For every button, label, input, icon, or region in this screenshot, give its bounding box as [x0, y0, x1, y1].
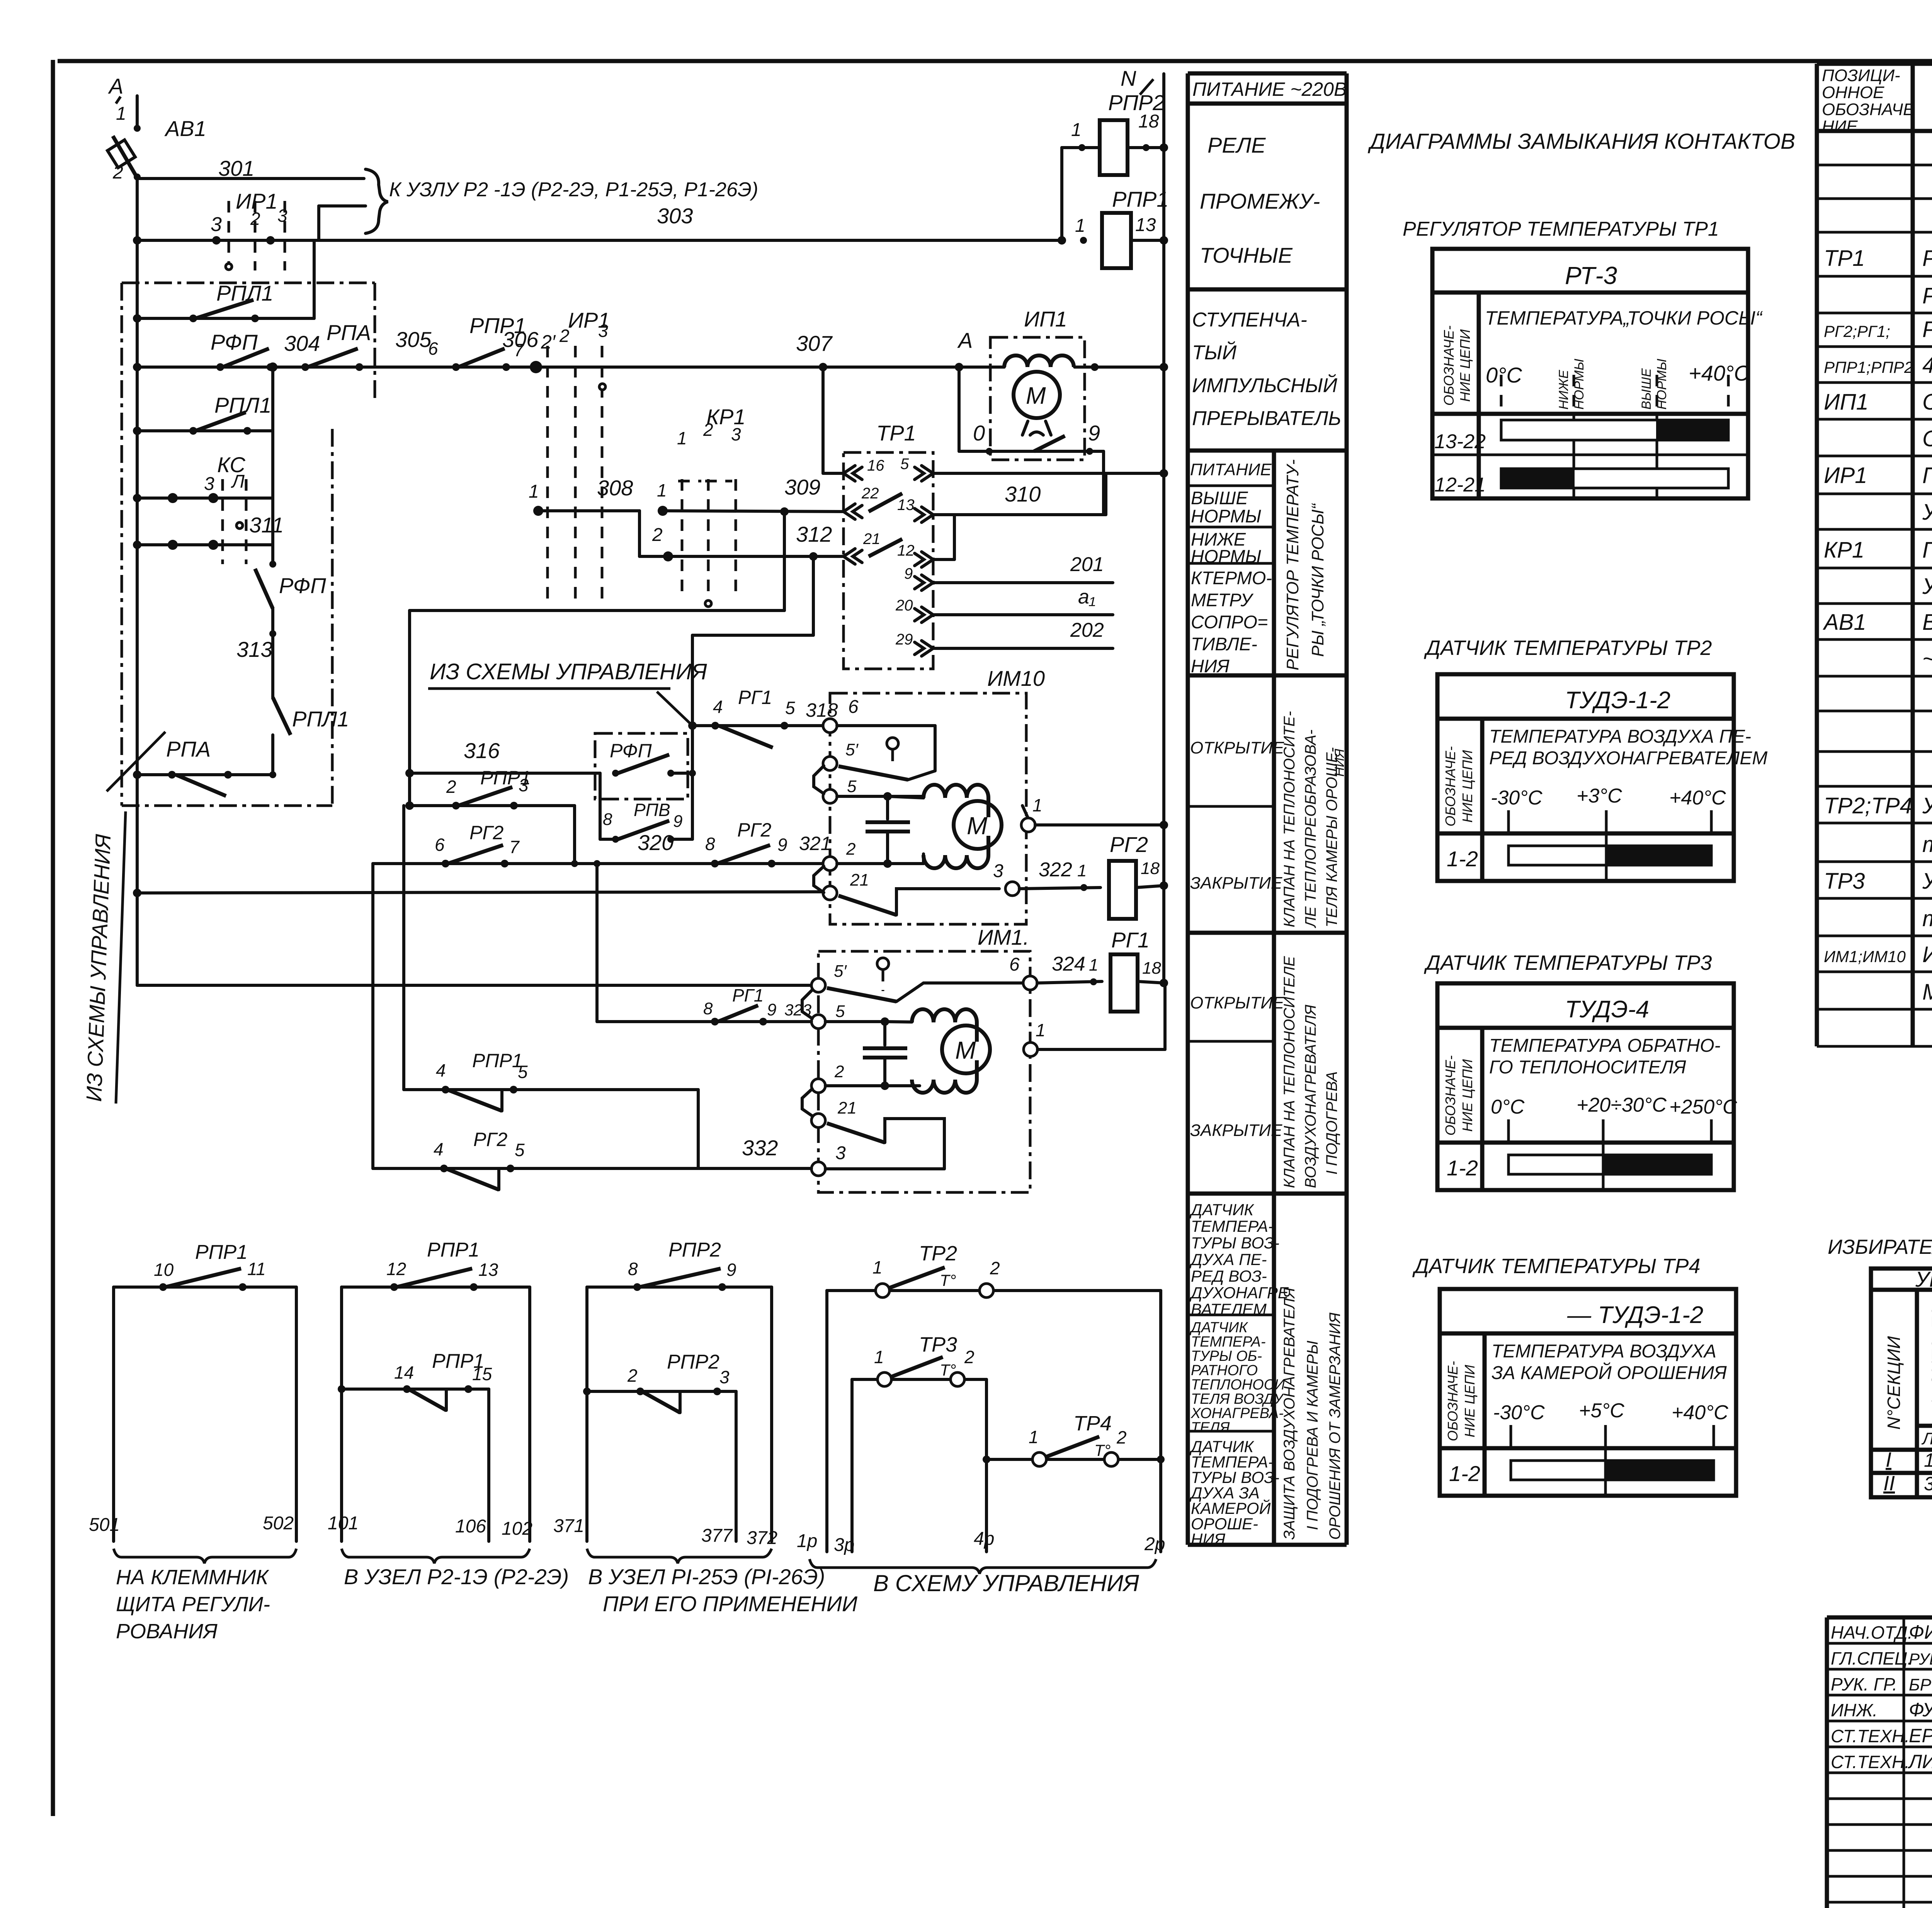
svg-text:ЛИСИКИНА: ЛИСИКИНА: [1908, 1751, 1932, 1772]
svg-text:ОБОЗНАЧЕ-: ОБОЗНАЧЕ-: [1441, 325, 1457, 406]
svg-text:5: 5: [900, 456, 909, 473]
svg-text:ОРОШЕНИЯ ОТ ЗАМЕРЗАНИЯ: ОРОШЕНИЯ ОТ ЗАМЕРЗАНИЯ: [1327, 1312, 1344, 1540]
svg-text:311: 311: [249, 513, 284, 537]
svg-text:РЕД ВОЗДУХОНАГРЕВАТЕЛЕМ: РЕД ВОЗДУХОНАГРЕВАТЕЛЕМ: [1489, 748, 1767, 769]
svg-text:6: 6: [435, 835, 445, 855]
svg-text:а₁: а₁: [1078, 586, 1095, 608]
svg-text:Л: Л: [231, 471, 245, 492]
contact КС: [137, 497, 273, 500]
wire to ИМ10 pin 21: [137, 892, 830, 893]
wire 316: [410, 772, 600, 775]
svg-text:13: 13: [897, 497, 915, 514]
motor М (ИП1): [1014, 372, 1060, 418]
stepper interrupter ИП1: [990, 337, 1085, 460]
svg-text:ФУКС: ФУКС: [1909, 1699, 1932, 1721]
svg-text:ТУДЭ-4: ТУДЭ-4: [1565, 996, 1649, 1023]
contact РПР1 4-5: [404, 1088, 698, 1091]
svg-text:1: 1: [1071, 120, 1082, 140]
svg-text:2: 2: [652, 525, 663, 545]
svg-text:2: 2: [446, 777, 456, 797]
svg-text:РПР1: РПР1: [427, 1239, 480, 1261]
title block: [1827, 1617, 1932, 1908]
svg-text:7: 7: [509, 837, 520, 857]
svg-text:1: 1: [1032, 795, 1043, 815]
svg-text:РПР1;РПР2: РПР1;РПР2: [1824, 358, 1913, 376]
svg-text:5: 5: [785, 698, 795, 718]
svg-text:РПА: РПА: [166, 737, 211, 761]
svg-text:ДАТЧИК: ДАТЧИК: [1189, 1320, 1248, 1336]
svg-text:12: 12: [897, 542, 915, 559]
svg-text:3р: 3р: [834, 1535, 854, 1555]
contact РГ1 4-5 wire 318: [692, 724, 830, 727]
svg-text:УП5311-С225 ТУ16-524.074-7: УП5311-С225 ТУ16-524.074-75: [1922, 500, 1932, 525]
svg-text:РПЛ1: РПЛ1: [214, 393, 271, 417]
svg-text:3: 3: [1924, 1473, 1932, 1495]
svg-text:8: 8: [603, 810, 612, 829]
svg-text:Устройство терморегулирующее: Устройство терморегулирующее элек-: [1922, 869, 1932, 894]
svg-text:8: 8: [628, 1259, 638, 1279]
diagram table ТУДЭ-1-2 (датчик ТР2): [1437, 674, 1767, 881]
svg-text:+40°С: +40°С: [1672, 1401, 1728, 1424]
svg-text:А: А: [957, 328, 973, 352]
svg-text:4з+4р ТУ16-523.457-74: 4з+4р ТУ16-523.457-74: [1922, 353, 1932, 378]
svg-text:НАЧ.ОТД.: НАЧ.ОТД.: [1831, 1622, 1913, 1643]
svg-text:3: 3: [993, 861, 1003, 881]
svg-text:12-21: 12-21: [1434, 474, 1486, 496]
svg-text:20: 20: [895, 597, 913, 614]
actuator ИМ10 box: [830, 693, 1026, 924]
svg-text:НИЕ: НИЕ: [1822, 117, 1858, 136]
svg-text:313: 313: [236, 637, 272, 662]
svg-text:ТУРЫ ВОЗ-: ТУРЫ ВОЗ-: [1191, 1234, 1279, 1252]
svg-text:6: 6: [428, 338, 438, 359]
svg-text:ОТКРЫТИЕ: ОТКРЫТИЕ: [1190, 738, 1284, 757]
svg-text:+5°С: +5°С: [1579, 1400, 1624, 1422]
svg-text:8: 8: [705, 834, 715, 854]
svg-text:ВАТЕЛЕМ: ВАТЕЛЕМ: [1191, 1300, 1267, 1318]
svg-text:ВОЗДУХОНАГРЕВАТЕЛЯ: ВОЗДУХОНАГРЕВАТЕЛЯ: [1302, 1004, 1319, 1188]
svg-text:СТУПЕНЧА-: СТУПЕНЧА-: [1192, 309, 1307, 331]
svg-text:9: 9: [767, 1000, 776, 1019]
ИМ10 pin 21 contact: [823, 886, 837, 900]
parts list table (Щит регулирования): [1817, 64, 1932, 1046]
svg-text:Исполнительный механизм: Исполнительный механизм: [1922, 942, 1932, 967]
svg-text:ТОЧНЫЕ: ТОЧНЫЕ: [1200, 243, 1293, 267]
svg-text:ДАТЧИК ТЕМПЕРАТУРЫ ТР4: ДАТЧИК ТЕМПЕРАТУРЫ ТР4: [1412, 1255, 1700, 1278]
svg-text:ТР2;ТР4: ТР2;ТР4: [1824, 793, 1912, 818]
ИМ10 pin 5' limit contact: [823, 757, 837, 770]
svg-text:ТЕМПЕРАТУРА„ТОЧКИ РОСЫ“: ТЕМПЕРАТУРА„ТОЧКИ РОСЫ“: [1485, 307, 1763, 329]
svg-text:СОПРО=: СОПРО=: [1191, 612, 1268, 632]
branch ТР4: [986, 1458, 1161, 1461]
relay coil РПР2: [1060, 148, 1063, 240]
svg-text:1: 1: [874, 1347, 884, 1367]
svg-text:~220В.Jн=1,6А;Jотс=1,3Jн ТУ16-: ~220В.Jн=1,6А;Jотс=1,3Jн ТУ16-522.110-74: [1922, 646, 1932, 672]
svg-text:4: 4: [713, 697, 723, 717]
pin 12 bracket: [953, 515, 956, 559]
svg-text:ТЫЙ: ТЫЙ: [1192, 341, 1237, 364]
svg-text:УП5311- С225: УП5311- С225: [1915, 1267, 1932, 1291]
svg-text:312: 312: [796, 522, 832, 546]
svg-text:I: I: [1886, 1448, 1891, 1471]
svg-text:БРОНШТЕЙН: БРОНШТЕЙН: [1909, 1675, 1932, 1694]
ИМ1 pin 5: [811, 1015, 825, 1029]
svg-text:Устройство терморегули: Устройство терморегули: [1922, 793, 1932, 818]
svg-text:РГ1: РГ1: [1111, 928, 1150, 952]
ИМ10 pin 1: [1021, 818, 1035, 832]
svg-text:13-22: 13-22: [1434, 430, 1486, 453]
svg-text:РПР1: РПР1: [1112, 187, 1168, 211]
svg-text:ТУДЭ-1-2: ТУДЭ-1-2: [1565, 687, 1670, 714]
svg-text:СТ.ТЕХН.: СТ.ТЕХН.: [1831, 1752, 1910, 1772]
svg-text:ТР1: ТР1: [876, 421, 916, 445]
svg-text:13: 13: [1135, 215, 1156, 235]
svg-text:УП5311-А225 ТУ16-524.07: УП5311-А225 ТУ16-524.074-75: [1922, 574, 1932, 599]
svg-text:НИЯ: НИЯ: [1191, 1530, 1225, 1548]
svg-text:+40°С: +40°С: [1669, 787, 1726, 809]
svg-text:18: 18: [1142, 959, 1161, 978]
circuit breaker АВ1: [136, 96, 139, 129]
svg-text:РГ2: РГ2: [1110, 832, 1148, 857]
svg-text:3: 3: [598, 321, 608, 341]
svg-text:РУК. ГР.: РУК. ГР.: [1831, 1674, 1897, 1694]
svg-text:Ступенчатый импульсный преры: Ступенчатый импульсный прерыватель: [1922, 389, 1932, 415]
svg-text:ТИВЛЕ-: ТИВЛЕ-: [1191, 634, 1257, 654]
svg-text:11: 11: [247, 1259, 266, 1279]
svg-text:301: 301: [218, 156, 254, 180]
svg-text:I ПОДОГРЕВА: I ПОДОГРЕВА: [1323, 1071, 1340, 1175]
ИМ1 pin 3: [811, 1162, 825, 1176]
svg-text:308: 308: [597, 476, 633, 500]
temperature regulator ТР1 box: [844, 452, 933, 669]
contact РПЛ1 (upper): [137, 317, 314, 320]
svg-text:РПР1: РПР1: [195, 1241, 248, 1263]
svg-text:ПИТАНИЕ: ПИТАНИЕ: [1190, 460, 1272, 479]
svg-text:5: 5: [835, 1002, 845, 1021]
svg-text:ИМПУЛЬСНЫЙ: ИМПУЛЬСНЫЙ: [1192, 374, 1338, 397]
svg-text:8: 8: [703, 999, 713, 1018]
svg-text:НОРМЫ: НОРМЫ: [1191, 506, 1261, 526]
svg-text:ДАТЧИК: ДАТЧИК: [1189, 1201, 1254, 1219]
svg-text:РГ2;РГ1;: РГ2;РГ1;: [1824, 322, 1890, 340]
diagram table РТ-3 (регулятор температуры ТР1): [1432, 249, 1763, 498]
svg-text:+3°С: +3°С: [1577, 785, 1622, 807]
svg-text:ВЫШЕ: ВЫШЕ: [1191, 488, 1248, 508]
svg-text:ОБОЗНАЧЕ-: ОБОЗНАЧЕ-: [1442, 1055, 1458, 1136]
svg-text:310: 310: [1005, 482, 1041, 506]
svg-text:1: 1: [1077, 861, 1087, 880]
svg-text:13: 13: [478, 1260, 498, 1280]
svg-text:РПР2: РПР2: [667, 1351, 719, 1373]
svg-text:ТЕЛЯ: ТЕЛЯ: [1191, 1420, 1230, 1436]
contact РПА row: [137, 773, 273, 776]
svg-text:+40°С: +40°С: [1689, 361, 1750, 385]
svg-text:ГЛ.СПЕЦ.: ГЛ.СПЕЦ.: [1831, 1648, 1912, 1668]
svg-text:4: 4: [436, 1060, 446, 1080]
svg-text:3: 3: [519, 775, 529, 795]
svg-text:ИП1: ИП1: [1024, 307, 1067, 331]
svg-text:320: 320: [638, 830, 673, 855]
contact РГ2 4-5 / wire 332: [373, 1167, 811, 1170]
svg-text:НИЯ: НИЯ: [1191, 656, 1230, 676]
svg-text:0°С: 0°С: [1491, 1096, 1525, 1118]
svg-text:ОННОЕ: ОННОЕ: [1822, 83, 1884, 102]
pin 21 contact: [844, 549, 855, 564]
svg-text:304: 304: [284, 331, 320, 355]
right bus N: [1162, 74, 1165, 985]
svg-text:ТЕМПЕРАТУРА ОБРАТНО-: ТЕМПЕРАТУРА ОБРАТНО-: [1489, 1036, 1721, 1056]
svg-text:+20÷30°С: +20÷30°С: [1577, 1094, 1667, 1116]
svg-text:6: 6: [848, 697, 859, 717]
svg-text:М: М: [967, 812, 988, 840]
svg-text:N°КОНТАКТА: N°КОНТАКТА: [1928, 1306, 1932, 1418]
svg-text:3: 3: [731, 424, 741, 444]
svg-text:НИЕ ЦЕПИ: НИЕ ЦЕПИ: [1457, 329, 1473, 402]
svg-text:106: 106: [455, 1516, 486, 1537]
svg-text:1: 1: [116, 104, 126, 124]
contact РПЛ1 (lower): [137, 429, 273, 432]
svg-text:324: 324: [1052, 953, 1085, 975]
svg-text:1: 1: [1089, 956, 1098, 974]
svg-text:РОВАНИЯ: РОВАНИЯ: [116, 1620, 218, 1643]
svg-text:9: 9: [726, 1260, 736, 1280]
svg-text:3: 3: [204, 474, 214, 494]
contact РПР1 2-3: [410, 804, 575, 807]
svg-text:9: 9: [1088, 421, 1100, 445]
svg-text:29: 29: [895, 631, 913, 648]
svg-text:ФИНГЕР: ФИНГЕР: [1909, 1621, 1932, 1643]
wire to ИМ1 pin 5": [137, 984, 818, 987]
svg-text:АВ1: АВ1: [1823, 610, 1866, 635]
svg-text:102: 102: [502, 1519, 532, 1539]
svg-text:201: 201: [1070, 553, 1104, 576]
svg-text:РПЛ1: РПЛ1: [216, 281, 273, 305]
svg-text:202: 202: [1070, 619, 1104, 641]
wire 311 row: [137, 543, 273, 546]
svg-text:ЕРИНА: ЕРИНА: [1909, 1725, 1932, 1746]
panel boundary dash-dot: [122, 282, 375, 284]
svg-text:трическое ТУДЭ-1-2 ТУ25-: трическое ТУДЭ-1-2 ТУ25-02.1074-75: [1922, 832, 1932, 857]
svg-text:2: 2: [627, 1366, 638, 1386]
svg-text:1: 1: [1029, 1427, 1039, 1447]
svg-text:14: 14: [394, 1362, 414, 1383]
svg-text:1: 1: [677, 428, 687, 448]
capacitor (ИМ1): [883, 1022, 886, 1045]
svg-text:N: N: [1121, 66, 1136, 90]
svg-text:0°С: 0°С: [1486, 363, 1522, 387]
svg-text:Реле промежуточное ПЭ-21-5У: Реле промежуточное ПЭ-21-5УЗ,~220В: [1922, 317, 1932, 342]
svg-text:4р: 4р: [974, 1529, 994, 1549]
svg-text:ТР2: ТР2: [919, 1242, 957, 1265]
svg-text:1-2: 1-2: [1447, 847, 1478, 871]
left supply bus: [136, 178, 139, 985]
svg-text:РПЛ1: РПЛ1: [292, 707, 349, 731]
svg-text:РЕЛЕ: РЕЛЕ: [1207, 133, 1266, 157]
svg-text:101: 101: [328, 1513, 359, 1534]
svg-text:ДАТЧИК ТЕМПЕРАТУРЫ ТР3: ДАТЧИК ТЕМПЕРАТУРЫ ТР3: [1424, 951, 1712, 974]
svg-text:В УЗЕЛ РI-25Э (РI-26Э): В УЗЕЛ РI-25Э (РI-26Э): [588, 1564, 825, 1589]
table rows text: [1823, 177, 1932, 1005]
svg-text:5′: 5′: [834, 962, 847, 981]
svg-text:М: М: [955, 1036, 976, 1064]
svg-text:2: 2: [834, 1062, 844, 1081]
svg-text:1-2: 1-2: [1449, 1461, 1480, 1486]
group 4: to control circuit: [825, 1291, 828, 1552]
svg-text:1: 1: [657, 480, 667, 500]
svg-text:323: 323: [784, 1001, 811, 1019]
svg-text:РЕГУЛЯТОР ТЕМПЕРАТУ-: РЕГУЛЯТОР ТЕМПЕРАТУ-: [1283, 459, 1302, 670]
svg-text:РАТНОГО: РАТНОГО: [1191, 1362, 1258, 1379]
svg-text:КР1: КР1: [1824, 537, 1864, 563]
svg-text:316: 316: [464, 738, 500, 763]
svg-text:2: 2: [990, 1258, 1000, 1278]
ИМ10 pin 5: [823, 789, 837, 803]
actuator ИМ1 box: [818, 951, 1030, 1192]
svg-text:ТЕЛЯ ВОЗДУ: ТЕЛЯ ВОЗДУ: [1191, 1391, 1284, 1407]
svg-text:РПР1: РПР1: [472, 1050, 523, 1071]
svg-text:1: 1: [1036, 1020, 1046, 1040]
svg-text:502: 502: [263, 1513, 294, 1534]
svg-text:1: 1: [1075, 216, 1085, 236]
wire 320/321 row: [373, 862, 830, 865]
svg-text:3: 3: [719, 1367, 730, 1387]
РФП bypass box: [595, 733, 688, 799]
svg-text:21: 21: [837, 1099, 857, 1117]
svg-text:12: 12: [386, 1259, 406, 1279]
svg-text:трическое ТУДЭ-4 ТУ25-02.10: трическое ТУДЭ-4 ТУ25-02.1074-75: [1922, 906, 1932, 931]
svg-text:ПРИ ЕГО ПРИМЕНЕНИИ: ПРИ ЕГО ПРИМЕНЕНИИ: [603, 1592, 858, 1616]
pin 20 / wire a1: [922, 607, 933, 622]
svg-text:ОБОЗНАЧЕ-: ОБОЗНАЧЕ-: [1442, 746, 1458, 826]
wire 308: [538, 509, 639, 512]
svg-text:Т°: Т°: [1094, 1441, 1111, 1459]
svg-text:РТ-3: РТ-3: [1565, 262, 1617, 289]
svg-text:Переключатель универсальный: Переключатель универсальный: [1922, 463, 1932, 488]
ИМ1 pin 2: [811, 1079, 825, 1093]
svg-text:307: 307: [796, 331, 833, 355]
svg-text:ЗАКРЫТИЕ: ЗАКРЫТИЕ: [1190, 874, 1282, 893]
svg-text:К УЗЛУ Р2 -1Э (Р2-2Э, Р1-25Э,: К УЗЛУ Р2 -1Э (Р2-2Э, Р1-25Э, Р1-26Э): [389, 179, 758, 201]
svg-text:— ТУДЭ-1-2: — ТУДЭ-1-2: [1567, 1302, 1703, 1328]
svg-text:Т°: Т°: [940, 1271, 956, 1289]
ИМ1 pin 6 / wire 324: [1023, 976, 1037, 990]
svg-text:ДУХОНАГРЕ: ДУХОНАГРЕ: [1189, 1284, 1289, 1302]
ИМ10 pin 2: [823, 857, 837, 871]
svg-text:РФП: РФП: [279, 573, 326, 598]
svg-text:2р: 2р: [1144, 1534, 1165, 1554]
svg-text:ТЕМПЕРА-: ТЕМПЕРА-: [1191, 1217, 1274, 1235]
svg-text:9: 9: [777, 835, 787, 855]
svg-text:321: 321: [799, 833, 831, 854]
svg-text:ЗА КАМЕРОЙ ОРОШЕНИЯ: ЗА КАМЕРОЙ ОРОШЕНИЯ: [1492, 1362, 1727, 1383]
svg-text:СТ.ТЕХН.: СТ.ТЕХН.: [1831, 1726, 1910, 1746]
svg-text:ИП1: ИП1: [1824, 389, 1869, 415]
svg-text:ПРЕРЫВАТЕЛЬ: ПРЕРЫВАТЕЛЬ: [1192, 407, 1341, 430]
svg-text:6: 6: [1009, 954, 1020, 975]
svg-text:ТР3: ТР3: [1824, 869, 1865, 894]
svg-text:ЗАЩИТА ВОЗДУХОНАГРЕВАТЕЛЯ: ЗАЩИТА ВОЗДУХОНАГРЕВАТЕЛЯ: [1281, 1287, 1298, 1540]
svg-text:ПОЗИЦИ-: ПОЗИЦИ-: [1822, 66, 1900, 85]
group 2: to node Р2-1Э: [340, 1287, 343, 1541]
svg-text:N°СЕКЦИИ: N°СЕКЦИИ: [1884, 1336, 1904, 1430]
svg-text:РПВ: РПВ: [634, 800, 670, 820]
svg-text:РФП: РФП: [211, 330, 258, 354]
wire 309: [663, 511, 844, 512]
svg-text:ИМ1;ИМ10: ИМ1;ИМ10: [1824, 947, 1906, 966]
switch diagram УП5311-С225 (избиратель ИР1): [1871, 1267, 1932, 1497]
svg-text:ТР1: ТР1: [1824, 246, 1865, 271]
svg-text:РГ2: РГ2: [469, 822, 504, 843]
svg-text:9: 9: [904, 565, 913, 582]
svg-text:РГ2: РГ2: [737, 819, 772, 841]
ИМ1 pin 5' limit contact: [811, 978, 825, 992]
svg-text:1: 1: [529, 481, 539, 502]
svg-text:5: 5: [515, 1140, 525, 1160]
svg-text:Выключатель автоматический А: Выключатель автоматический А63-МУЗ: [1922, 610, 1932, 635]
svg-text:НА КЛЕММНИК: НА КЛЕММНИК: [116, 1566, 269, 1589]
svg-text:ГО ТЕПЛОНОСИТЕЛЯ: ГО ТЕПЛОНОСИТЕЛЯ: [1489, 1057, 1686, 1078]
ИМ1 motor: [912, 1009, 977, 1042]
svg-text:РПР2: РПР2: [668, 1239, 721, 1261]
svg-text:5′: 5′: [845, 740, 859, 759]
svg-text:332: 332: [742, 1136, 778, 1160]
svg-text:306: 306: [502, 327, 539, 352]
svg-text:ТЕПЛОНОСИ: ТЕПЛОНОСИ: [1191, 1377, 1285, 1393]
svg-text:НОРМЫ: НОРМЫ: [1191, 546, 1261, 566]
svg-text:ХОНАГРЕВА-: ХОНАГРЕВА-: [1190, 1405, 1284, 1422]
svg-text:РЕГУЛЯТОР ТЕМПЕРАТУРЫ ТР1: РЕГУЛЯТОР ТЕМПЕРАТУРЫ ТР1: [1403, 218, 1719, 240]
svg-text:+250°С: +250°С: [1669, 1096, 1737, 1118]
svg-text:II: II: [1883, 1472, 1895, 1495]
svg-text:ЩИТА РЕГУЛИ-: ЩИТА РЕГУЛИ-: [116, 1593, 270, 1616]
sheet frame top line: [58, 59, 1932, 63]
pin 16: [844, 466, 855, 481]
svg-text:-30°С: -30°С: [1491, 787, 1543, 809]
wire 303: [137, 239, 1063, 242]
svg-text:21: 21: [850, 871, 869, 889]
svg-text:371: 371: [553, 1516, 584, 1536]
middle strip table: [1188, 73, 1347, 1545]
svg-text:1-2: 1-2: [1447, 1156, 1478, 1180]
svg-text:ТР4: ТР4: [1073, 1412, 1112, 1435]
svg-text:НИЯ: НИЯ: [1332, 748, 1347, 777]
svg-text:16: 16: [867, 457, 884, 474]
svg-text:Переключатель универсальный: Переключатель универсальный: [1922, 537, 1932, 563]
contact РПВ: [599, 773, 602, 839]
svg-text:В УЗЕЛ Р2-1Э (Р2-2Э): В УЗЕЛ Р2-1Э (Р2-2Э): [344, 1564, 569, 1589]
svg-text:-30°С: -30°С: [1493, 1401, 1545, 1424]
contact РГ1 8-9 / wire 323: [597, 1020, 811, 1023]
svg-text:377: 377: [701, 1525, 733, 1546]
wire 301: [137, 177, 364, 180]
svg-text:303: 303: [657, 204, 693, 228]
table header: [1822, 66, 1932, 136]
svg-text:ОБОЗНАЧЕ-: ОБОЗНАЧЕ-: [1445, 1361, 1461, 1441]
svg-text:3: 3: [211, 213, 222, 236]
svg-text:КТЕРМО-: КТЕРМО-: [1191, 568, 1272, 588]
relay coil РПР1: [1080, 237, 1087, 244]
svg-text:ДАТЧИК ТЕМПЕРАТУРЫ ТР2: ДАТЧИК ТЕМПЕРАТУРЫ ТР2: [1424, 636, 1712, 660]
svg-text:СИП-01М ТУ50108-77: СИП-01М ТУ50108-77: [1922, 426, 1932, 451]
pin 5: [922, 466, 933, 481]
svg-text:305: 305: [395, 327, 432, 352]
svg-text:18: 18: [1141, 859, 1160, 878]
svg-text:РТ-3 ТУ25-02.202114: РТ-3 ТУ25-02.202114-78: [1922, 283, 1932, 308]
svg-text:22: 22: [861, 485, 879, 502]
svg-text:ЛЕ ТЕПЛОПРЕОБРАЗОВА-: ЛЕ ТЕПЛОПРЕОБРАЗОВА-: [1302, 730, 1319, 928]
diagram table ТУДЭ-4 (датчик ТР3): [1437, 983, 1737, 1190]
svg-text:ИНЖ.: ИНЖ.: [1831, 1700, 1878, 1720]
